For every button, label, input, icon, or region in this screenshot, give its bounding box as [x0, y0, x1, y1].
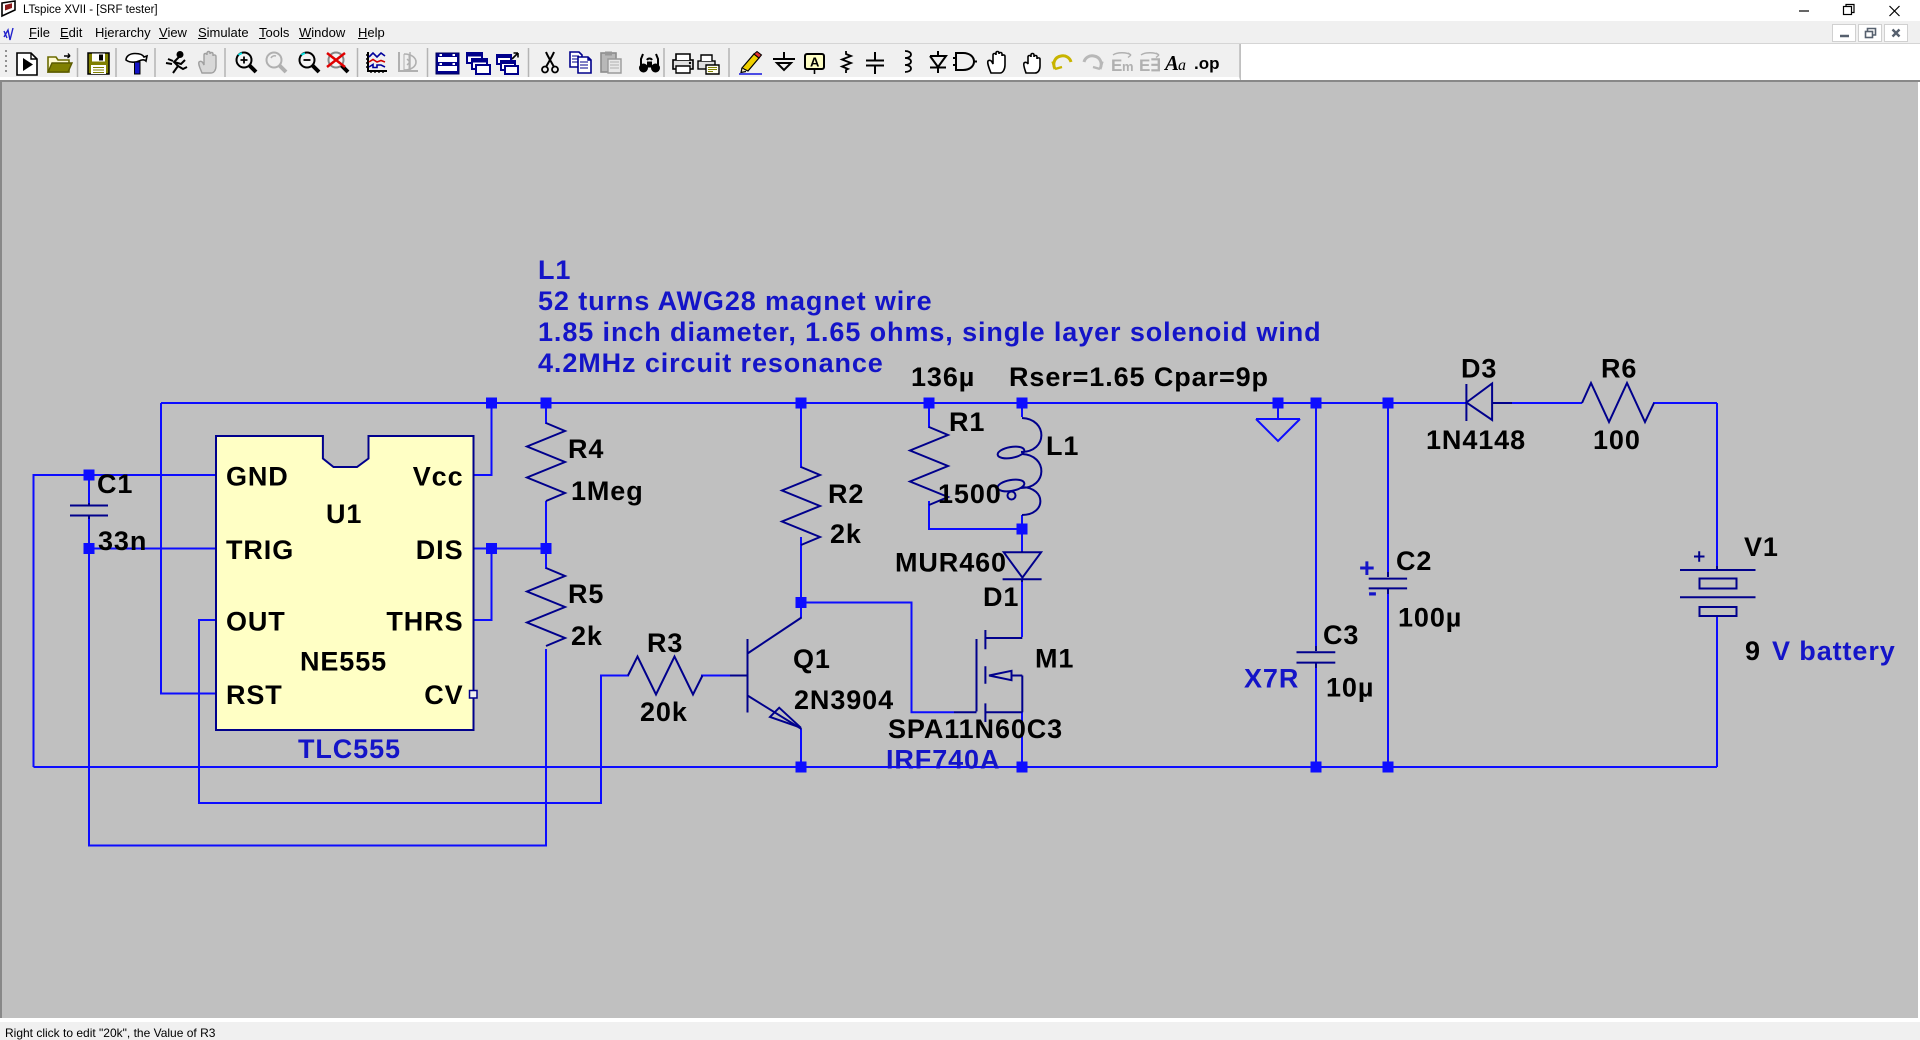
wire R3 right lead to Q1 base: [701, 675, 730, 677]
resistor R4: [527, 423, 565, 501]
svg-text:-: -: [1368, 577, 1378, 607]
icon zoom extents gray: [267, 53, 287, 73]
wire C1 top lead: [88, 475, 90, 503]
svg-text:1.85 inch diameter, 1.65 ohms,: 1.85 inch diameter, 1.65 ohms, single la…: [538, 317, 1322, 347]
svg-text:L1: L1: [538, 255, 571, 285]
svg-text:D3: D3: [1461, 354, 1497, 384]
LTspice app icon: [2, 1, 15, 16]
svg-text:136µ: 136µ: [911, 362, 975, 392]
mdi child buttons: [1833, 25, 1908, 42]
resistor R3: [628, 657, 703, 695]
svg-text:9: 9: [1745, 636, 1761, 666]
wire L1 bottom node to D1: [1021, 515, 1023, 551]
node junction squares: [84, 398, 1394, 773]
icon resistor tool: [842, 51, 851, 73]
wire DIS to R4/R5 node: [474, 548, 547, 550]
icon text tool: [1163, 51, 1186, 75]
wire R1 bottom to L1 bottom node: [929, 501, 1022, 529]
svg-text:THRS: THRS: [386, 607, 463, 637]
icon waveform: [366, 52, 387, 73]
icon control panel hammer: [126, 54, 147, 75]
svg-text:R2: R2: [828, 479, 864, 509]
wire L1 top lead: [1021, 403, 1023, 417]
window restore: [1844, 5, 1855, 15]
icon zoom out: [300, 53, 320, 73]
svg-text:R5: R5: [568, 579, 604, 609]
icon diode tool: [930, 51, 946, 73]
icon net label: [805, 54, 824, 74]
icon run: [166, 52, 187, 73]
icon mirror gray: [1111, 53, 1134, 75]
svg-text:V battery: V battery: [1772, 636, 1896, 666]
icon zoom cancel: [327, 53, 348, 73]
svg-text:R3: R3: [647, 628, 683, 658]
svg-text:1N4148: 1N4148: [1426, 425, 1526, 455]
icon print: [673, 54, 693, 73]
wire gate run from collector node: [801, 603, 954, 713]
svg-text:TLC555: TLC555: [298, 734, 401, 764]
wire GND pin to C1 and left rail drop: [34, 475, 217, 767]
icon copy: [570, 52, 591, 73]
svg-text:10µ: 10µ: [1326, 673, 1374, 703]
svg-text:Q1: Q1: [793, 644, 831, 674]
capacitor C3: [1297, 646, 1336, 668]
svg-text:GND: GND: [226, 462, 289, 492]
transistor Q1 2N3904: [730, 618, 802, 730]
wire C3 top lead: [1315, 403, 1317, 646]
wire R5 top lead: [545, 549, 547, 570]
resistor R5: [527, 568, 565, 646]
wire R1 top lead: [928, 403, 930, 428]
svg-text:m: m: [1122, 59, 1134, 74]
svg-text:D1: D1: [983, 582, 1019, 612]
svg-text:Rser=1.65 Cpar=9p: Rser=1.65 Cpar=9p: [1009, 362, 1269, 392]
diode D1 MUR460: [1003, 551, 1042, 582]
svg-text:2N3904: 2N3904: [794, 685, 894, 715]
icon paste gray: [601, 52, 621, 74]
icon waveform gray: [399, 52, 418, 72]
wire battery bottom lead: [1716, 617, 1718, 767]
icon cut: [542, 52, 558, 73]
svg-text:RST: RST: [226, 680, 283, 710]
capacitor C2 polarized: [1369, 572, 1407, 594]
wire R4 top lead: [545, 403, 547, 424]
icon cascade windows: [467, 53, 490, 74]
icon open: [48, 54, 72, 73]
icon ground tool: [773, 52, 795, 70]
wire C2 bottom lead: [1387, 594, 1389, 767]
resistor R2: [782, 467, 820, 545]
icon drag hand: [1024, 54, 1040, 74]
wire C1 bottom lead and TRIG feedback run: [89, 517, 546, 846]
svg-text:C1: C1: [97, 469, 133, 499]
battery V1: [1680, 551, 1756, 617]
svg-text:R1: R1: [949, 407, 985, 437]
wire M1 source to rail: [1021, 712, 1023, 767]
icon new schematic: [17, 53, 37, 75]
icon wire pencil: [739, 52, 762, 75]
svg-text:Vcc: Vcc: [413, 462, 464, 492]
icon spice directive: [1194, 54, 1220, 73]
svg-text:U1: U1: [326, 499, 362, 529]
icon tile windows: [436, 53, 459, 74]
wire THRS riser: [474, 549, 492, 621]
svg-text:X7R: X7R: [1244, 664, 1299, 694]
svg-text:∃: ∃: [1150, 56, 1161, 75]
mdi child icon: [4, 28, 13, 40]
inductor L1: [997, 418, 1042, 515]
icon redo gray: [1084, 56, 1103, 69]
toolbar separators: [78, 48, 730, 77]
icon zoom in: [237, 53, 257, 73]
wire R2 bottom to Q1 collector node: [800, 537, 802, 618]
wire bottom ground rail: [34, 766, 1718, 768]
ground symbol: [1256, 419, 1300, 441]
IC U1 TLC555 body: [216, 435, 474, 730]
svg-text:TRIG: TRIG: [226, 535, 294, 565]
wire D1 cathode to M1 drain: [1021, 580, 1023, 637]
svg-text:2k: 2k: [830, 519, 862, 549]
icon rotate gray: [1139, 53, 1161, 75]
svg-text:V1: V1: [1744, 532, 1779, 562]
icon halt hand gray: [199, 52, 216, 74]
svg-text:OUT: OUT: [226, 607, 286, 637]
icon undo: [1053, 56, 1072, 69]
svg-text:1500: 1500: [938, 479, 1002, 509]
icon cascade expand: [497, 53, 518, 74]
window minimize: [1799, 10, 1809, 12]
svg-text:.op: .op: [1194, 54, 1220, 73]
svg-text:R6: R6: [1601, 354, 1637, 384]
wire battery top lead: [1716, 403, 1718, 566]
icon find: [640, 54, 660, 72]
svg-text:100µ: 100µ: [1398, 603, 1462, 633]
wire C3 bottom lead: [1315, 668, 1317, 767]
wire OUT loop to R3: [199, 620, 629, 803]
svg-text:C2: C2: [1396, 546, 1432, 576]
svg-text:52 turns AWG28 magnet wire: 52 turns AWG28 magnet wire: [538, 286, 933, 316]
svg-text:SPA11N60C3: SPA11N60C3: [888, 714, 1063, 744]
wire C2 top lead: [1387, 403, 1389, 572]
svg-text:CV: CV: [424, 680, 463, 710]
icon print preview: [698, 55, 719, 74]
svg-text:C3: C3: [1323, 620, 1359, 650]
wire TRIG to C1: [89, 548, 216, 550]
mosfet M1 SPA11N60C3: [954, 630, 1022, 722]
svg-text:MUR460: MUR460: [895, 548, 1007, 578]
diode D3 1N4148: [1466, 384, 1512, 422]
wire left vertical to RST: [161, 403, 216, 694]
icon capacitor tool: [866, 52, 884, 74]
wire R2 top lead: [800, 403, 802, 468]
svg-text:L1: L1: [1046, 431, 1079, 461]
wire D3 left lead: [1446, 402, 1466, 404]
resistor R1: [910, 427, 948, 505]
svg-text:E: E: [1111, 56, 1122, 75]
svg-text:NE555: NE555: [300, 647, 387, 677]
svg-text:a: a: [1178, 57, 1186, 74]
svg-text:2k: 2k: [571, 621, 603, 651]
svg-text:E: E: [1139, 56, 1150, 75]
toolbar grip: [5, 50, 7, 72]
icon save: [88, 53, 109, 74]
svg-text:DIS: DIS: [416, 535, 464, 565]
icon move hand: [988, 52, 1005, 74]
capacitor C1: [70, 503, 108, 519]
wire Vcc riser: [474, 403, 492, 475]
wire top rail: [161, 402, 1717, 404]
svg-text:33n: 33n: [98, 526, 147, 556]
svg-text:1Meg: 1Meg: [571, 476, 644, 506]
wire ground stub: [1277, 403, 1279, 419]
svg-text:20k: 20k: [640, 697, 688, 727]
wire Q1 emitter to rail: [800, 729, 802, 767]
svg-text:A: A: [810, 55, 820, 70]
wire R4 bottom lead: [545, 501, 547, 549]
resistor R6: [1582, 383, 1654, 422]
svg-text:A: A: [1163, 51, 1179, 75]
pin CV open square: [470, 691, 478, 699]
svg-text:4.2MHz circuit resonance: 4.2MHz circuit resonance: [538, 348, 884, 378]
svg-text:R4: R4: [568, 434, 604, 464]
icon component tool: [953, 53, 977, 70]
svg-text:M1: M1: [1035, 644, 1074, 674]
svg-text:100: 100: [1593, 425, 1641, 455]
icon inductor tool: [905, 51, 911, 72]
svg-text:IRF740A: IRF740A: [886, 745, 1000, 775]
window close: [1890, 6, 1900, 16]
